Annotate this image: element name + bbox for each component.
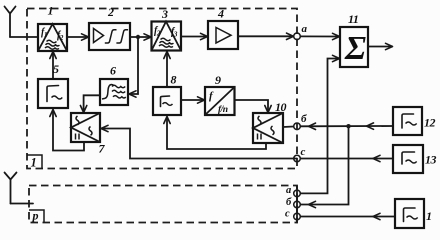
svg-text:11: 11 [348, 12, 358, 26]
svg-text:8: 8 [171, 73, 177, 87]
terminal b of box T [294, 123, 301, 130]
arrow into block 7 top [80, 106, 86, 113]
block 10 output bars [258, 134, 262, 140]
wire c-line into block 7 [101, 129, 297, 159]
svg-text:12: 12 [424, 116, 436, 130]
wire block9 to block10 [235, 100, 269, 112]
svg-text:10: 10 [275, 100, 287, 114]
dashed box P [29, 186, 297, 223]
block 6 pulse glyph [102, 85, 114, 99]
svg-text:f2: f2 [57, 30, 64, 42]
wire block5 to block1 [52, 53, 54, 79]
block 10 box [253, 113, 283, 143]
svg-text:а: а [302, 23, 308, 35]
wire from 10 to block 8 (bottom feed) [167, 117, 266, 149]
wire antenna2 into box P [11, 203, 34, 205]
svg-text:7: 7 [99, 142, 106, 156]
gen 13 box [393, 145, 423, 173]
block 7 squiggle top-left [76, 116, 79, 125]
gen 14 tilde [407, 216, 418, 219]
svg-text:3: 3 [161, 7, 168, 21]
svg-text:f3: f3 [171, 27, 178, 39]
arrow into block 1 bottom [50, 52, 56, 59]
gen 13 tilde [406, 160, 417, 163]
arrow into block 7 right [101, 125, 108, 131]
svg-text:1: 1 [426, 209, 432, 223]
block 11 output arrow [386, 43, 393, 49]
svg-text:f2: f2 [154, 26, 161, 38]
box P tab [29, 210, 44, 223]
block 2 limiter curve 1 [105, 30, 117, 43]
terminal b of box P [294, 201, 301, 208]
svg-text:1: 1 [31, 156, 37, 170]
arrow into block 5 bottom [50, 110, 56, 117]
block 3 waves [159, 38, 174, 47]
block 1 diagonals [38, 24, 67, 51]
svg-text:1: 1 [48, 4, 54, 18]
arrow on gen14 line [373, 213, 380, 219]
block 5 box [38, 79, 68, 108]
svg-text:р: р [32, 209, 39, 223]
gen 12 tilde [406, 122, 417, 125]
dashed box T [27, 9, 297, 169]
wire block8 to block3 [166, 53, 168, 87]
gen 12 box [393, 107, 422, 135]
terminal a of box T [294, 33, 301, 40]
block 5 G glyph [47, 86, 59, 102]
svg-text:б: б [301, 113, 307, 125]
gen 14 box [395, 199, 424, 228]
block 8 box [153, 87, 181, 115]
box P solid right edge [296, 186, 298, 223]
svg-text:f/n: f/n [218, 105, 228, 115]
svg-text:13: 13 [425, 153, 437, 167]
wire block 6 to block 7 [84, 95, 100, 111]
svg-text:2: 2 [107, 5, 114, 19]
wire gen14 to box p terminal c [301, 216, 396, 218]
wire block1 to block2 [67, 36, 88, 38]
arrow on c line [373, 155, 380, 161]
wire antenna1 to block 1 [10, 36, 38, 38]
svg-text:с: с [285, 208, 290, 219]
block 6 waves [112, 85, 126, 98]
terminal a of box P [294, 190, 301, 197]
block 10 diagonals [253, 113, 283, 143]
block 10 squiggle centre [271, 126, 274, 135]
arrow into block 3 [144, 34, 151, 40]
wire block2 to block3 [130, 36, 151, 38]
block 5 tilde [52, 96, 63, 99]
gen 14 G glyph [404, 208, 416, 222]
arrow into terminal a [287, 33, 294, 39]
wire block4 to terminal a [238, 35, 294, 37]
block 4 amplifier triangle [216, 28, 231, 44]
svg-text:Σ: Σ [344, 30, 366, 67]
block 8 G glyph [161, 96, 170, 107]
arrow into block 11 lower input [333, 55, 340, 61]
arrow on b line near terminal [309, 123, 316, 129]
arrow into block 6 right [129, 91, 136, 97]
wire junction down to block 6 [130, 37, 139, 94]
block 3 diagonals [152, 22, 182, 51]
box T tab [27, 155, 42, 169]
block 7 squiggle centre [89, 127, 92, 136]
wire block8 to block9 [181, 99, 204, 101]
block 10 squiggle top-left [258, 116, 261, 125]
wire from 7 to block 5 (bottom feed) [53, 110, 84, 151]
block 2 amplifier triangle [94, 29, 104, 43]
block 1 mixer box [38, 24, 67, 51]
block 7 box [71, 113, 100, 142]
block 9 box [205, 87, 235, 115]
svg-text:9: 9 [215, 73, 221, 87]
svg-text:б: б [286, 197, 292, 208]
block 2 box [89, 23, 130, 50]
arrow into block 11 top input [333, 33, 340, 39]
antenna A2 [5, 173, 17, 204]
arrow into block 4 [201, 33, 208, 39]
block 11 box [340, 27, 368, 67]
gen 12 G glyph [402, 114, 414, 128]
arrow into block 8 bottom [164, 117, 170, 124]
wire gen13 to terminal c [301, 158, 394, 160]
svg-text:с: с [301, 146, 306, 158]
terminal c of box T [294, 155, 301, 162]
block 7 diagonals [71, 113, 100, 142]
wire block3 to block4 [181, 36, 207, 38]
wire terminal a to block 11 [301, 35, 340, 37]
wire b branch down to box p terminal b [301, 126, 349, 204]
svg-text:5: 5 [53, 62, 59, 76]
block 6 box [100, 79, 128, 105]
block 2 limiter curve 2 [116, 30, 128, 43]
junction node between 2 and 3 [136, 35, 140, 39]
terminal c of box P [294, 213, 301, 220]
junction node on b line [346, 124, 350, 128]
arrow into block 2 [82, 34, 89, 40]
svg-text:4: 4 [217, 7, 224, 21]
gen 13 G glyph [402, 152, 415, 164]
svg-text:6: 6 [110, 64, 116, 78]
block 7 output bars [76, 134, 80, 140]
arrow into block 10 top [265, 106, 271, 113]
wire box p terminal a up to block 11 [301, 59, 340, 194]
block 11 output wire [368, 46, 392, 48]
arrow into block 3 bottom [164, 52, 170, 59]
antenna A1 [5, 7, 16, 38]
block 8 tilde [163, 103, 173, 106]
svg-text:f1: f1 [41, 27, 47, 39]
block 9 diagonal [205, 87, 235, 115]
svg-text:а: а [286, 185, 291, 196]
svg-text:f: f [209, 90, 214, 102]
arrow into block 9 [198, 97, 205, 103]
arrow into box p terminal b [309, 201, 316, 207]
block 3 mixer box [152, 22, 182, 51]
wire gen12 to terminal b [301, 125, 394, 127]
arrow on b line mid [367, 123, 374, 129]
block 4 box [208, 21, 238, 49]
wire block10 to terminal b [283, 126, 294, 129]
block 1 waves [45, 40, 60, 49]
